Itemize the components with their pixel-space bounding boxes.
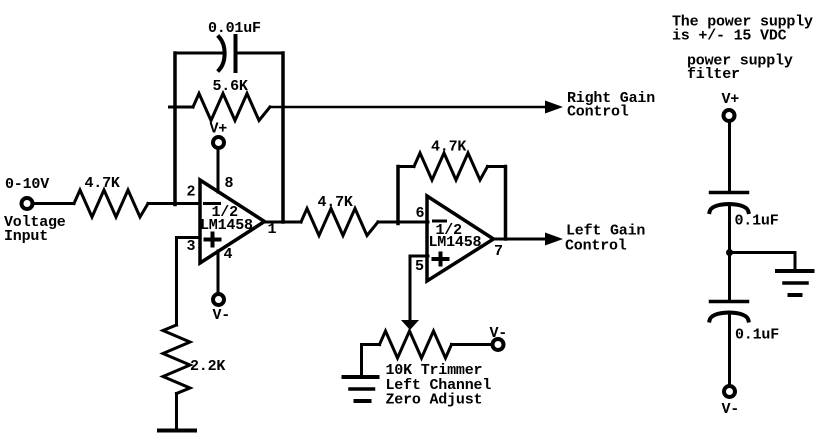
node V- terminal power supply [724,386,735,397]
wire feedback box1 right edge [281,53,285,222]
resistor 4.7K middle [301,209,378,236]
node V+ terminal op-amp 1 [213,137,224,148]
svg-text:V-: V- [213,307,231,324]
wire feedback box2 right edge [504,167,508,240]
capacitor 0.01uF straight plate [234,36,238,71]
ground trimmer bar 2 [350,387,374,391]
svg-text:Input: Input [4,228,48,245]
svg-text:0.1uF: 0.1uF [735,327,779,344]
wire junction to cap2 [728,253,731,302]
plus sign op-amp 1 [206,234,220,246]
capacitor 0.1uF lower flat plate [711,300,748,304]
resistor 2.2K [163,325,190,394]
resistor 5.6K [193,94,270,121]
wire R input to pin 2 [148,202,200,205]
wire cap1 to junction [728,206,731,253]
svg-text:8: 8 [225,175,234,192]
svg-text:Control: Control [567,104,629,121]
wire V+ to pin 8 [217,149,220,192]
node V- terminal trimmer [493,339,504,350]
svg-text:4.7K: 4.7K [318,194,353,211]
trimmer wiper arrowhead [401,320,419,330]
input terminal circle [22,198,33,209]
minus sign op-amp 1 [205,202,220,205]
wire cap2 to V- [728,315,731,387]
svg-text:2: 2 [187,184,196,201]
ground ps bar 3 [790,293,801,297]
svg-text:3: 3 [187,238,196,255]
wire trimmer right lead [452,343,493,346]
wire V+ to cap1 [728,122,731,191]
ground trimmer bar 1 [344,375,378,379]
svg-text:LM1458: LM1458 [200,217,253,234]
svg-text:0.1uF: 0.1uF [735,213,779,230]
wire junction to ground [730,253,796,270]
wire 2.2K to ground [175,394,178,430]
capacitor 0.1uF upper curved plate [710,204,749,212]
svg-text:4.7K: 4.7K [85,175,120,192]
svg-text:5.6K: 5.6K [213,78,248,95]
svg-text:V-: V- [722,401,740,418]
capacitor 0.1uF lower curved plate [710,313,749,321]
node V+ terminal power supply [724,110,735,121]
ground bar bottom left [159,429,195,433]
potentiometer 10K trimmer zigzag [380,331,452,358]
wire R mid to pin 6 [378,221,428,224]
wire trimmer left lead [362,345,380,376]
resistor 4.7K input [74,190,148,217]
svg-text:6: 6 [416,205,425,222]
wire 5.6K to right gain arrow [270,106,545,109]
svg-text:7: 7 [494,243,503,260]
svg-text:4.7K: 4.7K [431,139,466,156]
wire pin 5 to trimmer wiper [410,256,428,320]
wire cap row right [237,52,283,55]
svg-text:1: 1 [268,221,277,238]
svg-text:V+: V+ [722,91,740,108]
wire output pin 1 [265,221,302,224]
node V- terminal op-amp 1 [213,294,224,305]
wire fb2 top right [488,165,506,168]
svg-text:V-: V- [490,325,508,342]
plus sign op-amp 2 [434,254,448,265]
node junction dot [726,249,733,256]
wire cap row left [175,52,223,55]
wire output pin 7 [494,238,546,241]
resistor 4.7K feedback 2 [414,153,488,180]
ground ps bar 1 [777,269,813,273]
minus sign op-amp 2 [434,220,446,223]
svg-text:0.01uF: 0.01uF [208,20,261,37]
capacitor 0.1uF upper flat plate [711,191,748,195]
arrowhead left gain [545,233,563,246]
svg-text:Zero Adjust: Zero Adjust [386,392,483,409]
wire input to R input [35,202,75,205]
op-amp U2 LM1458 triangle [427,196,494,281]
svg-text:2.2K: 2.2K [190,358,225,375]
svg-text:filter: filter [687,66,740,83]
arrowhead right gain [545,101,563,114]
svg-text:4: 4 [224,246,233,263]
wire feedback box2 left edge [396,167,400,224]
wire pin 4 to V- [217,251,220,293]
svg-text:Control: Control [565,238,627,255]
wire fb2 top left [398,165,414,168]
wire 5.6K row left stub [170,106,194,109]
op-amp U1 LM1458 triangle [200,180,265,263]
wire feedback box1 left edge [173,53,177,205]
svg-text:is +/- 15 VDC: is +/- 15 VDC [672,28,787,45]
ground ps bar 2 [784,281,807,285]
ground trimmer bar 3 [356,399,370,403]
svg-text:LM1458: LM1458 [429,234,482,251]
svg-text:0-10V: 0-10V [5,176,49,193]
capacitor 0.01uF curved plate [219,37,225,70]
svg-text:5: 5 [415,258,424,275]
wire pin 3 [177,238,201,326]
svg-text:V+: V+ [210,121,228,138]
